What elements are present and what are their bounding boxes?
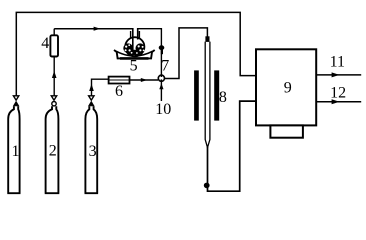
svg-text:3: 3 [89, 143, 97, 160]
three-way valve 7 [158, 57, 169, 81]
svg-text:4: 4 [41, 35, 49, 52]
svg-text:10: 10 [155, 101, 171, 118]
flowmeter 6 [109, 77, 130, 100]
valve on cylinder 3 (open down-triangle and filled up-triangle) [89, 96, 95, 106]
svg-text:7: 7 [161, 57, 169, 74]
gas cylinder 3 [85, 106, 99, 193]
wire: flask outlet down to valve 7 [138, 29, 162, 75]
flow arrow up on cylinder 3 riser [89, 84, 94, 91]
valve on cylinder 2 (open down-triangle and small circle) [51, 96, 56, 106]
svg-text:8: 8 [219, 89, 227, 106]
svg-text:2: 2 [49, 143, 57, 160]
liquid in flask (dark masses with bubble holes) [123, 43, 133, 53]
flow arrow up on cylinder 2 riser [52, 71, 57, 78]
svg-text:5: 5 [130, 58, 138, 75]
junction dot on reactor outlet [204, 183, 210, 189]
flask neck walls [131, 31, 140, 38]
valve on cylinder 1 (open down-triangle and filled up-triangle) [13, 96, 19, 106]
wire: line from drying tube 4 to bubbler flask 5 [54, 28, 133, 30]
wire: flowmeter 6 to valve 7 [130, 79, 159, 81]
wire: riser from cylinder 2 up through drying tube 4 [53, 29, 55, 96]
wire: valve 7 to top of reactor tube 8 [165, 28, 208, 79]
svg-text:6: 6 [115, 83, 123, 100]
analyzer box 9 [256, 49, 316, 125]
drying tube 4 [41, 35, 58, 57]
svg-text:12: 12 [330, 84, 346, 101]
gas cylinder 2 [45, 106, 60, 193]
vent line 10 below valve 7 [155, 82, 171, 118]
flow arrow right on line 6-7 [141, 78, 148, 82]
wire: bypass line from cylinder 1 over the top to analyzer 9 [16, 12, 256, 95]
wire: reactor outlet to analyzer 9 [208, 101, 256, 191]
svg-text:11: 11 [330, 54, 345, 71]
outlet tube [137, 28, 139, 40]
stopper cap [205, 36, 209, 42]
heating dish [114, 50, 155, 58]
svg-text:9: 9 [284, 80, 292, 97]
flask bulb [125, 37, 144, 56]
reactor tube 8 [205, 36, 227, 147]
output line 11 [316, 54, 361, 78]
inlet tube going into liquid [132, 28, 134, 54]
analyzer pedestal base [270, 125, 303, 137]
flow arrow right on flask feed line [94, 27, 101, 31]
output line 12 [316, 84, 361, 104]
bubbler flask 5 with heating dish [114, 28, 155, 75]
flow arrow down on flask outlet drop [159, 45, 165, 50]
tube walls [205, 42, 210, 148]
gas cylinder 1 [7, 106, 20, 193]
furnace heater bar right [214, 70, 219, 120]
furnace heater bar left [194, 70, 199, 120]
wire: riser from cylinder 3 to flowmeter 6 line [92, 79, 109, 96]
svg-text:1: 1 [12, 143, 20, 160]
